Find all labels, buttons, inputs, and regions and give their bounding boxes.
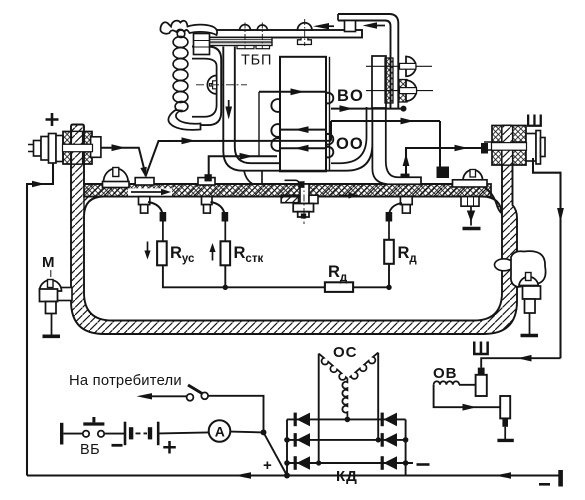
- winding turn VO with current arrow: [259, 91, 326, 93]
- winding turn OO lower with current arrow: [280, 147, 326, 149]
- resistor R_ус (accelerating): [162, 221, 164, 241]
- bimetal strip TBP under plate: [208, 38, 272, 46]
- current arrow up at R_стк: [212, 250, 214, 261]
- clamp at plate left end: [194, 34, 210, 55]
- post A bolt and lead down to R_us: [139, 197, 150, 205]
- post D bolt and lead down to R_d: [400, 197, 412, 205]
- motion arrow left over plate: [323, 25, 334, 27]
- ammeter А: [160, 432, 210, 433]
- junction dot at contact output: [401, 106, 407, 112]
- rectifier bridge КД wiring: [286, 419, 288, 475]
- svg-text:ОС: ОС: [333, 344, 358, 361]
- battery minus end bar: [558, 470, 563, 487]
- knife switch to consumers: [187, 394, 194, 401]
- wire from ОВ to grounded brush: [434, 385, 500, 407]
- case body (regulator housing, hatched ring): [27, 113, 564, 476]
- armature strip (C-band): [192, 47, 221, 126]
- resistor R_стк (temperature compensation): [224, 221, 226, 241]
- svg-text:ОО: ОО: [336, 135, 364, 153]
- stator phase rail right: [377, 353, 379, 440]
- armature pivot half-disc: [207, 76, 216, 94]
- wire from post C to winding OO: [209, 156, 277, 175]
- svg-text:М: М: [42, 254, 55, 271]
- ground symbol under "М": [43, 334, 61, 338]
- motion arrow left under L-strip: [373, 25, 385, 27]
- flow arrow in top wall (left, white window): [128, 188, 172, 195]
- armature return spring: [177, 30, 185, 38]
- svg-text:Rус: Rус: [170, 244, 195, 265]
- interior resistors: [144, 218, 417, 292]
- svg-text:Rд: Rд: [328, 263, 348, 284]
- post C bolt and lead down to R_stk: [202, 197, 213, 205]
- svg-text:На потребители: На потребители: [69, 373, 182, 389]
- flux arrow down inside yoke leg: [228, 100, 230, 112]
- housing wall ring: [71, 125, 517, 335]
- wire diagonal to rectifier plus node: [264, 432, 288, 475]
- label "+": [46, 113, 59, 126]
- ground symbol under brush: [497, 439, 513, 442]
- stator winding ОС right coil: [350, 353, 379, 379]
- plate screws: [240, 25, 251, 30]
- lower fixed contact screw: [366, 90, 433, 92]
- label "+" at battery: [163, 441, 176, 454]
- junction dot star point lead: [345, 417, 351, 423]
- brush to Ш terminal: [476, 375, 487, 396]
- contact stack bracket down to case: [372, 108, 421, 184]
- junction dot R_д/bus: [386, 285, 391, 290]
- junction dot bottom bus: [284, 473, 290, 479]
- resistor R_д (vertical): [388, 218, 390, 240]
- label "Ш" (top right): [527, 115, 542, 127]
- current arrow down at R_ус: [147, 242, 149, 253]
- storage battery: [104, 433, 125, 435]
- junction dot at ammeter output: [261, 429, 267, 435]
- wire from "+" bolt to post A: [101, 148, 145, 172]
- current-flow arrow under wall right: [339, 194, 350, 196]
- stator phase rail left: [318, 354, 320, 463]
- wire from post A to winding VO: [146, 121, 332, 177]
- winding loops left of core: [271, 99, 280, 112]
- junction dots of bridge: [284, 437, 290, 443]
- svg-text:ОВ: ОВ: [433, 365, 458, 382]
- label "−" at rectifier output: [417, 463, 430, 466]
- grounded brush: [500, 396, 510, 418]
- yoke mounting foot on case: [244, 171, 262, 184]
- case top wall (cross-hatched): [84, 184, 491, 197]
- grounded screw terminal on right wall flange: [495, 259, 514, 271]
- svg-text:ТБП: ТБП: [241, 53, 272, 69]
- wire from post D up to "Ш" bolt: [406, 148, 482, 175]
- winding loops right of core: [326, 93, 333, 104]
- winding turn OO upper with current arrow: [280, 129, 326, 131]
- svg-text:Rд: Rд: [398, 244, 418, 265]
- inner corner fillets: [84, 197, 104, 217]
- bottom circuit: [27, 342, 563, 487]
- upper fixed contact screw: [366, 65, 432, 67]
- winding end vertical lead: [258, 92, 260, 157]
- stator winding ОС middle coil: [342, 378, 347, 419]
- svg-text:ВБ: ВБ: [80, 442, 100, 458]
- svg-text:+: +: [263, 457, 272, 474]
- electromagnet core of relay: [280, 57, 326, 172]
- upper bracket L-strip: [338, 14, 398, 108]
- svg-text:А: А: [215, 423, 225, 439]
- resistor R_д (horizontal): [325, 282, 353, 292]
- center mounting bolt through top wall: [300, 184, 309, 204]
- terminal bolt "Ш" (through right wall ear): [484, 141, 545, 143]
- dome screw on case top (right): [463, 170, 483, 181]
- field winding ОВ coil: [434, 381, 460, 385]
- fixed contact stack: [372, 56, 386, 108]
- moving contact on plate: [298, 23, 312, 30]
- wire VO end to contact junction: [331, 108, 402, 110]
- arrow to consumers: [146, 395, 187, 397]
- resistor bus wiring: [163, 264, 389, 288]
- armature top plate: [196, 30, 362, 38]
- current-flow arrow in top wall: [131, 191, 162, 193]
- spring hanger bracket: [160, 21, 217, 35]
- label "Ш" (field circuit): [473, 342, 489, 356]
- svg-text:КД: КД: [336, 468, 358, 485]
- svg-text:Rстк: Rстк: [234, 244, 264, 265]
- bottom bus wire: [27, 474, 561, 476]
- wire from switch to ammeter node: [208, 396, 263, 430]
- post D terminal on bracket foot: [401, 174, 410, 182]
- wire from "+" bolt down left side to bottom bus: [27, 164, 53, 476]
- grounded stud under wall with arrow and ground bar: [461, 197, 479, 207]
- junction dot R_стк/bus: [223, 285, 228, 290]
- post C on case top (to R_stk): [198, 178, 215, 185]
- top relay assembly: [101, 14, 440, 184]
- svg-text:ВО: ВО: [337, 87, 364, 105]
- rectifier diodes (6): [294, 413, 397, 470]
- label "−" bottom right: [539, 483, 550, 486]
- wire from "Ш" bolt down right side: [533, 158, 561, 358]
- junction dots phase rails: [316, 460, 321, 465]
- terminal block of VO wire grounded to case: [437, 167, 450, 179]
- stator winding ОС left coil: [319, 354, 348, 380]
- spring lower hook ribbon: [168, 110, 200, 130]
- post A on case top (to R_us): [135, 178, 154, 185]
- terminal bolt "+" (through left wall ear): [28, 144, 91, 146]
- label "−" at battery: [112, 444, 123, 447]
- dome screw on case top (left): [104, 169, 129, 182]
- magnet yoke (left leg, bottom band, right leg): [223, 47, 372, 171]
- wire from contacts to case ground block: [331, 120, 440, 122]
- wire from Ш bolt to brush: [481, 358, 560, 367]
- battery switch ВБ: [60, 423, 63, 445]
